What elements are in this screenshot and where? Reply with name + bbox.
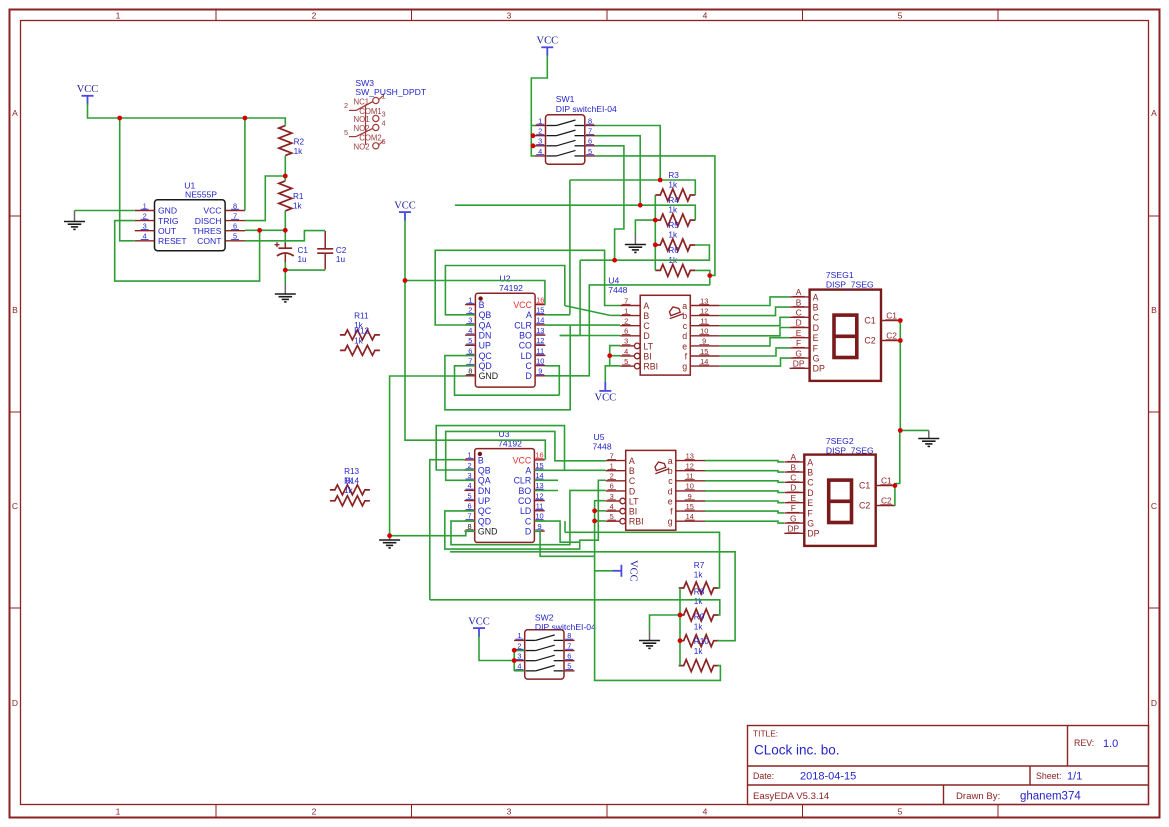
junction — [117, 116, 122, 121]
svg-text:VCC: VCC — [203, 206, 221, 216]
DIP switch SW1 — [535, 115, 595, 164]
svg-text:2018-04-15: 2018-04-15 — [800, 771, 856, 783]
svg-text:F: F — [813, 343, 819, 353]
wire U2 pin15 A stub — [545, 314, 570, 316]
wire U4 e to 7SEG1 E — [720, 338, 790, 346]
svg-text:B: B — [12, 305, 18, 315]
svg-text:G: G — [795, 348, 802, 358]
ground (U2/U3 GND) — [389, 538, 391, 541]
wire U4 RBI to VCC — [605, 366, 609, 382]
wire U1 RESET to VCC rail — [120, 118, 135, 241]
svg-text:1k: 1k — [694, 570, 704, 579]
svg-text:A: A — [791, 452, 797, 462]
svg-text:CLR: CLR — [514, 476, 532, 486]
wire R2-R1 junction to DISCH — [245, 176, 285, 221]
svg-text:2: 2 — [312, 10, 317, 20]
resistor R12 — [340, 327, 380, 356]
svg-text:GND: GND — [478, 526, 498, 536]
wire bus3 down to U4 D — [579, 260, 581, 335]
svg-text:DN: DN — [479, 331, 492, 341]
svg-text:1k: 1k — [354, 336, 364, 345]
wire U2 pin10 C down — [545, 366, 559, 395]
svg-text:LT: LT — [643, 341, 653, 351]
ground (R4 node) — [634, 235, 636, 245]
svg-text:E: E — [813, 333, 819, 343]
svg-text:F: F — [791, 503, 796, 513]
svg-text:U5: U5 — [594, 432, 605, 442]
VCC net flag (SW1) — [537, 36, 559, 57]
wire U3 QC to U5 C — [445, 480, 606, 549]
svg-text:4: 4 — [703, 807, 708, 817]
wire R8 rail — [430, 600, 720, 615]
title block — [748, 726, 1149, 805]
svg-text:F: F — [796, 338, 801, 348]
svg-text:QD: QD — [478, 516, 491, 526]
resistor R14 — [330, 477, 370, 506]
svg-text:D: D — [796, 318, 802, 328]
svg-text:B: B — [478, 455, 484, 465]
svg-text:B: B — [791, 462, 797, 472]
wire VCC to SW2 — [479, 636, 514, 661]
svg-text:D: D — [12, 698, 18, 708]
svg-text:B: B — [643, 311, 649, 321]
wire U4 c to 7SEG1 C — [720, 317, 790, 325]
svg-text:QD: QD — [479, 361, 492, 371]
svg-text:b: b — [668, 466, 673, 476]
wire R7-R10 left chain — [679, 588, 681, 666]
svg-text:TITLE:: TITLE: — [753, 729, 778, 739]
svg-text:C2: C2 — [864, 336, 875, 346]
wire SW1 pin8 to bus1 — [595, 126, 660, 181]
wire U5 d to 7SEG2 D — [705, 491, 784, 493]
svg-text:R5: R5 — [668, 221, 679, 230]
svg-text:Date:: Date: — [753, 771, 774, 781]
svg-text:B: B — [807, 468, 813, 478]
svg-text:D: D — [813, 323, 819, 333]
wire U4 LT-BI-RBI tie — [610, 346, 621, 366]
wire U3 pin9 D down — [535, 531, 595, 556]
wire bus1 R3 — [570, 180, 695, 195]
svg-text:1k: 1k — [668, 206, 678, 215]
svg-text:NO2: NO2 — [354, 142, 370, 151]
resistor R5 — [655, 221, 695, 251]
svg-text:1k: 1k — [668, 230, 678, 239]
ground (U1 GND pin) — [74, 211, 76, 222]
junction — [403, 278, 408, 283]
svg-text:RBI: RBI — [629, 517, 644, 527]
svg-text:U2: U2 — [500, 274, 511, 284]
svg-text:QB: QB — [478, 465, 491, 475]
svg-text:1.0: 1.0 — [1103, 738, 1118, 750]
svg-text:UP: UP — [478, 496, 490, 506]
wire C1-C2 bottom link — [285, 269, 325, 271]
svg-text:A: A — [629, 456, 635, 466]
svg-text:E: E — [796, 328, 802, 338]
svg-text:a: a — [668, 456, 673, 466]
svg-text:F: F — [807, 508, 813, 518]
wire VCC to U2 rail — [405, 220, 545, 460]
svg-text:e: e — [668, 496, 673, 506]
svg-text:A: A — [643, 301, 649, 311]
svg-text:d: d — [682, 331, 687, 341]
wire R2 bottom lead — [284, 156, 286, 181]
svg-text:C1: C1 — [881, 476, 892, 486]
svg-text:LT: LT — [629, 496, 639, 506]
svg-text:2: 2 — [312, 807, 317, 817]
wire 7SEG2 C1-C2 tie — [894, 486, 896, 506]
svg-text:UP: UP — [479, 341, 491, 351]
wire C1 bottom node — [284, 262, 286, 283]
svg-text:DP: DP — [787, 524, 799, 534]
svg-text:COM2: COM2 — [359, 134, 382, 143]
svg-text:R2: R2 — [294, 137, 305, 146]
wire U2 GND to ground rail — [390, 376, 466, 536]
wire v stub pin10 row — [564, 521, 566, 532]
svg-text:R10: R10 — [694, 637, 709, 646]
VCC net flag (U2 rail) — [394, 200, 416, 221]
svg-text:LD: LD — [521, 351, 532, 361]
title block text — [753, 729, 1118, 803]
display 7SEG2 DISP_7SEG — [784, 452, 895, 546]
wire SW2 pin4 stub — [514, 670, 525, 672]
svg-text:RBI: RBI — [643, 362, 658, 372]
svg-text:E: E — [807, 498, 813, 508]
wire U4 B pin join — [610, 314, 620, 316]
wire ground rail to U3 GND — [390, 531, 475, 535]
svg-text:C2: C2 — [336, 246, 347, 255]
svg-text:A: A — [526, 310, 532, 320]
wire 7SEG1 C1-C2 tie — [899, 321, 901, 341]
svg-text:CO: CO — [518, 496, 531, 506]
wire VCC to SW1 — [531, 55, 547, 156]
svg-text:1k: 1k — [668, 180, 678, 189]
svg-text:g: g — [668, 517, 673, 527]
svg-text:3: 3 — [507, 807, 512, 817]
svg-text:DN: DN — [478, 486, 491, 496]
svg-text:B: B — [479, 300, 485, 310]
svg-text:C: C — [643, 321, 650, 331]
junction — [531, 143, 536, 148]
switch SW3 SW_PUSH_DPDT — [344, 92, 386, 152]
svg-text:1k: 1k — [294, 147, 304, 156]
svg-text:R14: R14 — [344, 477, 359, 486]
svg-text:QB: QB — [479, 310, 492, 320]
svg-text:C: C — [1151, 501, 1157, 511]
svg-text:1k: 1k — [293, 202, 303, 211]
svg-text:3: 3 — [507, 10, 512, 20]
svg-text:DISP_7SEG: DISP_7SEG — [826, 446, 874, 456]
svg-text:VCC: VCC — [394, 200, 416, 211]
wire R3-R6 left chain — [654, 195, 656, 270]
svg-text:DP: DP — [793, 359, 805, 369]
wire U3 pin9 row to R7 — [565, 532, 720, 588]
svg-text:D: D — [526, 371, 532, 381]
wire CONT to C2 top — [245, 231, 325, 241]
svg-text:SW_PUSH_DPDT: SW_PUSH_DPDT — [355, 87, 426, 97]
decoder U5 7448 — [606, 450, 705, 530]
svg-text:1k: 1k — [344, 486, 354, 495]
wire R8 ground branch — [650, 615, 681, 631]
svg-text:VCC: VCC — [468, 616, 490, 627]
svg-text:REV:: REV: — [1074, 738, 1094, 748]
svg-text:EasyEDA V5.3.14: EasyEDA V5.3.14 — [753, 791, 830, 802]
junction — [531, 133, 536, 138]
ground (below C1) — [284, 283, 286, 294]
svg-text:R7: R7 — [694, 561, 705, 570]
svg-text:RESET: RESET — [158, 236, 187, 246]
resistor R8 — [679, 587, 719, 621]
VCC net flag (U5, rotated) — [613, 560, 639, 582]
svg-text:BO: BO — [519, 331, 532, 341]
svg-text:C: C — [526, 361, 533, 371]
svg-text:7448: 7448 — [593, 442, 612, 452]
capacitor C2 — [317, 231, 347, 270]
svg-text:GND: GND — [479, 371, 499, 381]
svg-text:C: C — [807, 478, 814, 488]
resistor R11 — [340, 312, 380, 340]
svg-text:G: G — [813, 354, 820, 364]
svg-text:2: 2 — [344, 101, 348, 110]
svg-text:B: B — [1151, 305, 1157, 315]
svg-text:THRES: THRES — [192, 226, 221, 236]
svg-text:C2: C2 — [886, 331, 897, 341]
wire BO stub — [560, 335, 580, 337]
svg-text:CO: CO — [519, 341, 532, 351]
svg-text:1k: 1k — [694, 647, 704, 656]
svg-text:Sheet:: Sheet: — [1036, 771, 1061, 781]
wire U5 RBI down to R10 — [595, 521, 721, 681]
svg-text:A: A — [813, 292, 819, 302]
junction — [283, 228, 288, 233]
wire QB diagonal to U4 B — [565, 306, 610, 316]
svg-text:B: B — [813, 303, 819, 313]
svg-text:5: 5 — [898, 807, 903, 817]
svg-text:DP: DP — [807, 529, 819, 539]
wire R4 ground branch — [635, 220, 655, 234]
wire U4 g to 7SEG1 G — [720, 358, 790, 366]
svg-text:G: G — [790, 513, 797, 523]
svg-text:SW1: SW1 — [556, 94, 575, 104]
svg-text:VCC: VCC — [513, 300, 532, 310]
VCC net flag (top-left) — [77, 84, 99, 105]
VCC net flag (U4, inverted) — [595, 382, 617, 403]
svg-text:D: D — [1151, 698, 1157, 708]
wire SW1 pin1 stub — [531, 125, 535, 127]
svg-text:DP: DP — [813, 364, 825, 374]
junction — [893, 483, 898, 488]
wire U3 QB loop — [436, 426, 564, 471]
wire U2 QB loop — [445, 266, 564, 315]
wire SW2 pin2 stub — [514, 649, 525, 651]
svg-text:NO1: NO1 — [354, 115, 370, 124]
wire SW1 pin7 to bus2 — [595, 136, 640, 206]
svg-text:R8: R8 — [694, 587, 705, 596]
svg-text:C1: C1 — [886, 311, 897, 321]
wire THRES wire — [245, 229, 285, 231]
svg-text:C: C — [813, 313, 820, 323]
svg-text:3: 3 — [381, 110, 385, 119]
svg-text:4: 4 — [703, 10, 708, 20]
svg-text:R9: R9 — [694, 613, 705, 622]
wire U2 QC to U4 C — [445, 325, 570, 410]
svg-text:ghanem374: ghanem374 — [1020, 791, 1081, 803]
junction — [257, 228, 262, 233]
wire bus3 R5 — [580, 245, 709, 260]
svg-text:c: c — [683, 321, 688, 331]
svg-text:DISCH: DISCH — [195, 216, 222, 226]
counter U2 74192 — [465, 293, 545, 387]
wire VCC tap (rotated flag) — [595, 570, 613, 572]
svg-text:R4: R4 — [668, 196, 679, 205]
wire U3 pin10 C down — [535, 521, 580, 542]
wire C1 top lead wire — [284, 230, 286, 243]
wire U5 b to 7SEG2 B — [705, 471, 784, 472]
wire U5 BI stub — [595, 510, 606, 512]
wire U5 LT-BI-RBI tie — [595, 501, 606, 521]
svg-text:C: C — [525, 516, 532, 526]
wire 7SEG common down — [899, 341, 901, 431]
svg-text:4: 4 — [381, 119, 385, 128]
svg-text:D: D — [643, 331, 649, 341]
wire R6 right to SW1 pin5 node — [695, 270, 710, 285]
svg-text:R11: R11 — [354, 312, 369, 321]
svg-text:VCC: VCC — [513, 455, 532, 465]
svg-text:C: C — [796, 308, 802, 318]
svg-text:C: C — [12, 501, 18, 511]
wire TRIG loop under U1 — [115, 221, 260, 282]
svg-text:C: C — [629, 476, 636, 486]
wire common to ground — [900, 429, 929, 431]
junction — [283, 268, 288, 273]
wire U1 GND to ground — [75, 210, 135, 212]
svg-text:SW2: SW2 — [535, 613, 554, 623]
svg-text:A: A — [796, 287, 802, 297]
svg-text:1u: 1u — [298, 255, 308, 264]
svg-text:BO: BO — [518, 486, 531, 496]
svg-text:G: G — [807, 519, 814, 529]
wire U5 f to 7SEG2 F — [705, 511, 784, 513]
wire U4 D row — [560, 335, 621, 337]
ground (R8 node) — [649, 631, 651, 641]
wire U4 d to 7SEG1 D — [720, 328, 790, 336]
junction — [607, 353, 612, 358]
svg-text:DIP switchEI-04: DIP switchEI-04 — [535, 622, 596, 632]
wire SW1 pin3 stub — [531, 145, 535, 147]
capacitor C1 — [275, 242, 309, 264]
wire U1 pin8 VCC drop — [244, 118, 246, 211]
junction — [512, 648, 517, 653]
svg-text:OUT: OUT — [158, 226, 177, 236]
junction — [592, 519, 597, 524]
wire R9 rail — [450, 552, 735, 641]
svg-text:B: B — [796, 297, 802, 307]
junction — [283, 174, 288, 179]
resistor R1 — [279, 181, 304, 211]
svg-text:QC: QC — [478, 506, 492, 516]
svg-text:74192: 74192 — [499, 283, 523, 293]
wire U2 VCC rail — [405, 281, 545, 305]
svg-text:E: E — [791, 493, 797, 503]
svg-text:R6: R6 — [668, 246, 679, 255]
wire U4 f to 7SEG1 F — [720, 348, 790, 356]
svg-text:Drawn By:: Drawn By: — [956, 791, 1000, 802]
resistor R7 — [679, 561, 719, 594]
resistor R9 — [679, 613, 719, 647]
wire U4 b to 7SEG1 B — [720, 307, 790, 316]
svg-text:R13: R13 — [344, 467, 359, 476]
svg-text:A: A — [525, 465, 531, 475]
svg-text:VCC: VCC — [537, 36, 559, 47]
svg-text:7448: 7448 — [608, 285, 627, 295]
svg-text:5: 5 — [898, 10, 903, 20]
wire U5 D row stub — [535, 490, 559, 492]
svg-text:e: e — [682, 341, 687, 351]
svg-text:D: D — [525, 526, 531, 536]
svg-text:g: g — [682, 362, 687, 372]
svg-text:A: A — [807, 457, 813, 467]
wire common to 7SEG2 C1 — [895, 430, 900, 485]
counter U3 74192 — [464, 449, 544, 543]
junction — [678, 613, 683, 618]
junction — [653, 218, 658, 223]
resistor R2 — [279, 126, 305, 156]
resistor R13 — [330, 467, 370, 495]
resistor R10 — [679, 637, 719, 671]
svg-text:R1: R1 — [293, 192, 304, 201]
junction — [658, 178, 663, 183]
svg-text:VCC: VCC — [627, 560, 638, 582]
junction — [243, 116, 248, 121]
wire bus2 R4 — [455, 205, 695, 220]
svg-text:D: D — [807, 488, 813, 498]
svg-text:1k: 1k — [694, 622, 704, 631]
ground (7SEG common) — [928, 431, 930, 439]
svg-text:C1: C1 — [864, 316, 875, 326]
svg-text:CLock inc. bo.: CLock inc. bo. — [754, 743, 840, 758]
svg-text:QA: QA — [478, 476, 491, 486]
svg-text:C1: C1 — [298, 246, 309, 255]
svg-text:GND: GND — [158, 206, 177, 216]
wire U4 BI stub — [610, 355, 621, 357]
wire U5 e to 7SEG2 E — [705, 501, 784, 503]
wire U4 a to 7SEG1 A — [720, 297, 790, 306]
svg-text:QA: QA — [479, 320, 492, 330]
junction — [898, 318, 903, 323]
svg-text:CLR: CLR — [514, 320, 532, 330]
svg-text:VCC: VCC — [595, 392, 617, 403]
svg-text:1: 1 — [116, 807, 121, 817]
wire SW1 pin2 stub — [531, 135, 535, 137]
display 7SEG1 DISP_7SEG — [790, 287, 901, 381]
svg-text:CONT: CONT — [197, 236, 222, 246]
svg-text:b: b — [682, 311, 687, 321]
wire U3 QD loop — [451, 490, 606, 544]
svg-text:DIP switchEI-04: DIP switchEI-04 — [556, 104, 617, 114]
svg-text:5: 5 — [344, 128, 348, 137]
wire U3 QA to U5 A — [446, 431, 606, 480]
svg-text:c: c — [668, 476, 673, 486]
wire R6 node to U2 pin9 — [545, 285, 710, 376]
wire U4 C row — [545, 324, 620, 326]
wire bus1 down — [569, 180, 571, 315]
wire U5 a to 7SEG2 A — [705, 461, 784, 462]
svg-text:1u: 1u — [336, 255, 346, 264]
op-amp U1 NE555P — [135, 200, 245, 251]
junction — [653, 242, 658, 247]
wire SW1 pin5 long — [595, 156, 715, 276]
svg-text:C2: C2 — [859, 501, 870, 511]
resistor R3 — [655, 171, 695, 201]
